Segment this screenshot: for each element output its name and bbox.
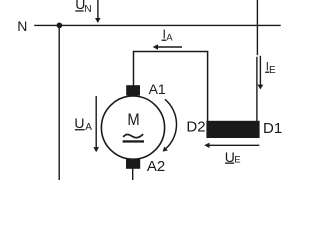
svg-text:A1: A1 <box>149 81 166 97</box>
svg-text:E: E <box>234 155 240 166</box>
svg-text:M: M <box>127 111 139 129</box>
svg-text:A2: A2 <box>147 158 165 175</box>
svg-text:N: N <box>84 4 91 15</box>
svg-text:A: A <box>85 122 92 133</box>
svg-text:E: E <box>269 65 276 76</box>
svg-text:A: A <box>166 33 173 44</box>
svg-text:N: N <box>17 18 27 34</box>
svg-text:D2: D2 <box>186 119 205 136</box>
svg-text:U: U <box>74 115 84 131</box>
svg-text:D1: D1 <box>263 120 282 137</box>
